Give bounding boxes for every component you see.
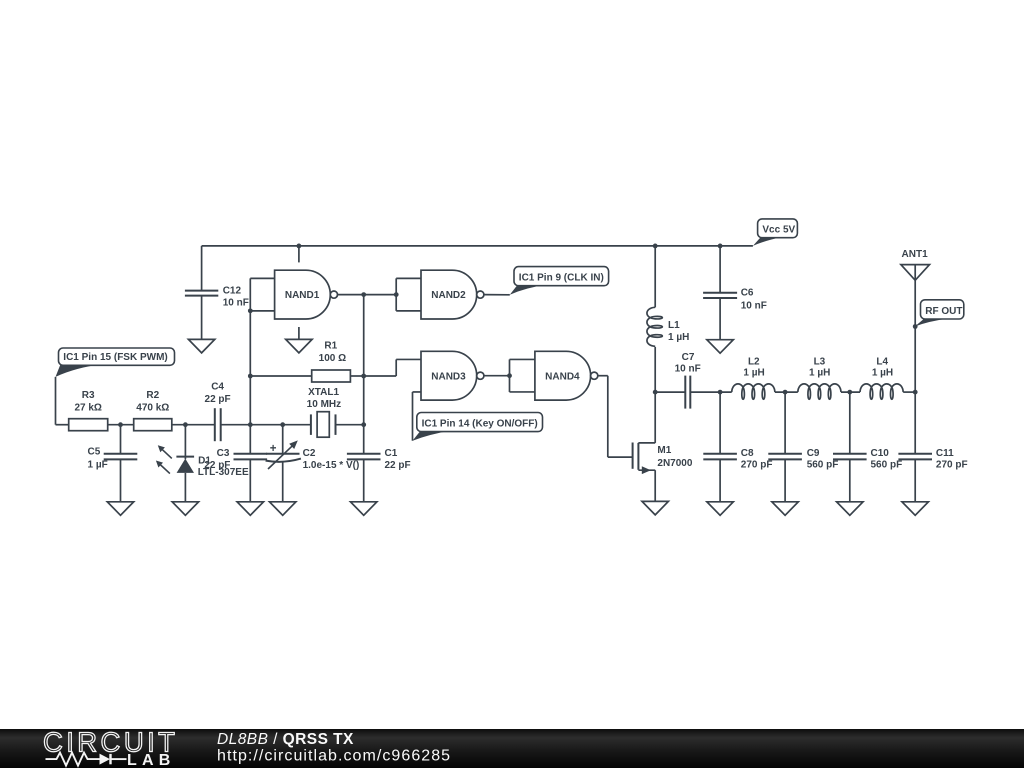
capacitor C11 xyxy=(898,392,967,502)
ground below C6 xyxy=(707,340,733,354)
resistor R2 xyxy=(134,390,172,431)
svg-text:27 kΩ: 27 kΩ xyxy=(74,402,101,413)
junction dot C8 tap xyxy=(718,390,723,395)
ground below C8 xyxy=(707,502,733,516)
wire L3 to L4 xyxy=(841,391,860,393)
svg-text:1 µH: 1 µH xyxy=(872,368,893,379)
ground below C11 xyxy=(902,502,928,516)
junction dot XTAL row right xyxy=(361,422,366,427)
ground below C1 xyxy=(351,502,377,516)
junction dot NAND2 input tie xyxy=(394,292,399,297)
ground below C5 xyxy=(107,502,133,516)
wire R3 to R2 xyxy=(108,424,134,426)
ground below M1 xyxy=(642,501,668,515)
wire NAND4 input tie xyxy=(509,359,511,392)
wire R3 left lead xyxy=(56,424,69,426)
antenna ANT1 xyxy=(901,249,930,392)
svg-text:10 nF: 10 nF xyxy=(675,364,701,375)
inductor L1 xyxy=(647,246,689,392)
wire R2 to C4 xyxy=(172,424,215,426)
ground below C12 xyxy=(188,339,214,353)
capacitor C2 variable xyxy=(266,425,360,502)
capacitor C8 xyxy=(703,392,772,502)
op-amp NAND2 gate xyxy=(421,270,484,319)
wire R1 row to NAND3 xyxy=(364,375,397,377)
svg-text:1 µH: 1 µH xyxy=(743,368,764,379)
junction dot C5 tap xyxy=(118,422,123,427)
svg-text:1 µH: 1 µH xyxy=(668,332,689,343)
transistor M1 2N7000 xyxy=(633,443,693,475)
junction dot NAND1 output to C1 branch xyxy=(361,292,366,297)
wire NAND1 Vdd stub xyxy=(298,246,300,263)
wire NAND1 feedback vertical xyxy=(249,311,251,425)
svg-text:C11: C11 xyxy=(936,448,954,459)
svg-text:IC1 Pin 14 (Key ON/OFF): IC1 Pin 14 (Key ON/OFF) xyxy=(422,418,538,429)
wire M1 drain xyxy=(654,392,656,443)
op-amp NAND3 gate xyxy=(421,351,484,400)
svg-text:100 Ω: 100 Ω xyxy=(319,353,346,364)
svg-text:DL8BB / QRSS TX: DL8BB / QRSS TX xyxy=(217,731,354,748)
svg-text:+: + xyxy=(270,443,277,455)
svg-text:560 pF: 560 pF xyxy=(871,459,903,470)
svg-text:C2: C2 xyxy=(303,448,316,459)
junction dot C6 tap on top rail xyxy=(718,244,723,249)
junction dot L1 tap on top rail xyxy=(653,244,658,249)
junction dot XTAL row C2 tap xyxy=(280,422,285,427)
svg-text:IC1 Pin 9 (CLK IN): IC1 Pin 9 (CLK IN) xyxy=(519,273,604,284)
wire C1/R1 vertical xyxy=(363,295,365,454)
svg-text:C8: C8 xyxy=(741,448,754,459)
junction dot D1 tap xyxy=(183,422,188,427)
wire NAND1 Vss stub xyxy=(298,327,300,339)
svg-text:R1: R1 xyxy=(324,341,337,352)
svg-text:NAND2: NAND2 xyxy=(431,290,466,301)
resistor R1 xyxy=(250,341,363,383)
wire NAND1 input A pin xyxy=(250,277,274,279)
capacitor C3 xyxy=(204,425,267,502)
diode D1 LED xyxy=(156,425,249,502)
svg-text:L1: L1 xyxy=(668,320,680,331)
svg-text:C6: C6 xyxy=(741,288,754,299)
capacitor C6 xyxy=(703,246,767,340)
capacitor C10 xyxy=(833,392,902,502)
svg-text:560 pF: 560 pF xyxy=(807,459,839,470)
svg-text:IC1 Pin 15 (FSK PWM): IC1 Pin 15 (FSK PWM) xyxy=(63,352,167,363)
svg-text:C3: C3 xyxy=(217,448,230,459)
crystal XTAL1 xyxy=(283,387,364,437)
junction dot R1 left xyxy=(248,374,253,379)
svg-text:22 pF: 22 pF xyxy=(385,460,411,471)
wire NAND4 input A pin xyxy=(510,358,535,360)
op-amp NAND4 gate xyxy=(535,351,598,400)
node IC1 Pin 15 (FSK PWM) callout xyxy=(56,348,175,377)
wire NAND2 output xyxy=(484,294,510,296)
svg-text:22 pF: 22 pF xyxy=(204,460,230,471)
wire NAND2 input tie xyxy=(395,278,397,311)
inductor L3 xyxy=(798,356,841,399)
ground below D1 xyxy=(172,502,198,516)
svg-text:http://circuitlab.com/c966285: http://circuitlab.com/c966285 xyxy=(217,748,451,765)
wire C7 to L2 xyxy=(690,391,731,393)
svg-text:ANT1: ANT1 xyxy=(902,249,929,260)
wire NAND1 output xyxy=(338,294,397,296)
svg-text:10 nF: 10 nF xyxy=(741,300,767,311)
junction dot C11 tap xyxy=(913,390,918,395)
junction dot NAND4 input tie xyxy=(507,373,512,378)
wire NAND3 input B xyxy=(413,391,422,393)
wire Vcc top rail xyxy=(202,245,753,247)
svg-text:Vcc 5V: Vcc 5V xyxy=(762,225,795,236)
node IC1 Pin 14 (Key ON/OFF) callout xyxy=(413,413,543,441)
svg-text:C12: C12 xyxy=(223,285,242,296)
capacitor C12 xyxy=(185,246,249,340)
svg-text:L2: L2 xyxy=(748,356,760,367)
svg-text:C1: C1 xyxy=(385,448,398,459)
wire L2 to L3 xyxy=(775,391,798,393)
svg-text:2N7000: 2N7000 xyxy=(657,458,692,469)
junction dot R1 right xyxy=(361,374,366,379)
node RF OUT callout xyxy=(915,300,964,327)
capacitor C7 xyxy=(675,352,701,409)
node IC1 Pin 9 (CLK IN) callout xyxy=(510,267,609,295)
svg-text:10 MHz: 10 MHz xyxy=(307,399,341,410)
wire NAND1 input B pin xyxy=(250,310,274,312)
junction dot NAND1 Vdd stub on top rail xyxy=(297,244,302,249)
node Vcc 5V callout xyxy=(753,219,797,246)
svg-text:M1: M1 xyxy=(657,445,671,456)
svg-text:R2: R2 xyxy=(146,390,159,401)
capacitor C1 xyxy=(347,448,411,502)
svg-text:C10: C10 xyxy=(871,448,890,459)
logo squiggle resistor and diode xyxy=(46,753,100,766)
svg-text:L3: L3 xyxy=(814,356,826,367)
ground below C3 xyxy=(237,502,263,516)
ground below C10 xyxy=(837,502,863,516)
wire NAND2 input B pin xyxy=(396,310,421,312)
svg-text:R3: R3 xyxy=(82,390,95,401)
svg-text:NAND4: NAND4 xyxy=(545,371,580,382)
inductor L2 xyxy=(732,356,775,399)
inductor L4 xyxy=(860,356,903,399)
resistor R3 xyxy=(69,390,108,431)
ground below NAND1 xyxy=(286,339,312,353)
wire L1 to C7 xyxy=(655,391,685,393)
svg-text:C7: C7 xyxy=(682,352,695,363)
wire M1 source to ground xyxy=(654,470,656,501)
op-amp NAND1 gate xyxy=(275,270,338,319)
svg-text:270 pF: 270 pF xyxy=(936,459,968,470)
footer bar xyxy=(0,729,1024,768)
junction dot filter row M1/L1 xyxy=(653,390,658,395)
svg-text:1.0e-15 * V(): 1.0e-15 * V() xyxy=(303,460,360,471)
wire NAND3 output xyxy=(484,375,510,377)
svg-text:RF OUT: RF OUT xyxy=(925,306,962,317)
svg-text:XTAL1: XTAL1 xyxy=(308,387,339,398)
junction dot C10 tap xyxy=(847,390,852,395)
junction dot NAND1 input B xyxy=(248,308,253,313)
svg-text:C4: C4 xyxy=(211,382,224,393)
capacitor C5 xyxy=(88,425,138,502)
svg-text:NAND1: NAND1 xyxy=(285,290,320,301)
svg-text:LAB: LAB xyxy=(127,752,175,768)
ground below C2 xyxy=(270,502,296,516)
junction dot RF OUT anchor xyxy=(913,324,918,329)
svg-text:1 µF: 1 µF xyxy=(88,459,108,470)
svg-text:NAND3: NAND3 xyxy=(431,371,466,382)
svg-text:10 nF: 10 nF xyxy=(223,297,249,308)
junction dot C9 tap xyxy=(783,390,788,395)
wire NAND2 input A pin xyxy=(396,277,421,279)
ground below C9 xyxy=(772,502,798,516)
wire NAND4 output to M1 gate xyxy=(598,375,608,377)
svg-text:C9: C9 xyxy=(807,448,820,459)
wire NAND1 input tie xyxy=(249,278,251,311)
junction dot XTAL row left xyxy=(248,422,253,427)
svg-text:L4: L4 xyxy=(876,356,888,367)
wire L4 to antenna column xyxy=(903,391,915,393)
wire NAND4 input B pin xyxy=(510,391,535,393)
svg-text:1 µH: 1 µH xyxy=(809,368,830,379)
svg-text:270 pF: 270 pF xyxy=(741,459,773,470)
svg-text:470 kΩ: 470 kΩ xyxy=(136,402,169,413)
svg-text:22 pF: 22 pF xyxy=(205,394,231,405)
svg-text:C5: C5 xyxy=(88,447,101,458)
wire callout to R3 xyxy=(55,377,57,425)
capacitor C4 xyxy=(205,382,283,442)
capacitor C9 xyxy=(768,392,838,502)
